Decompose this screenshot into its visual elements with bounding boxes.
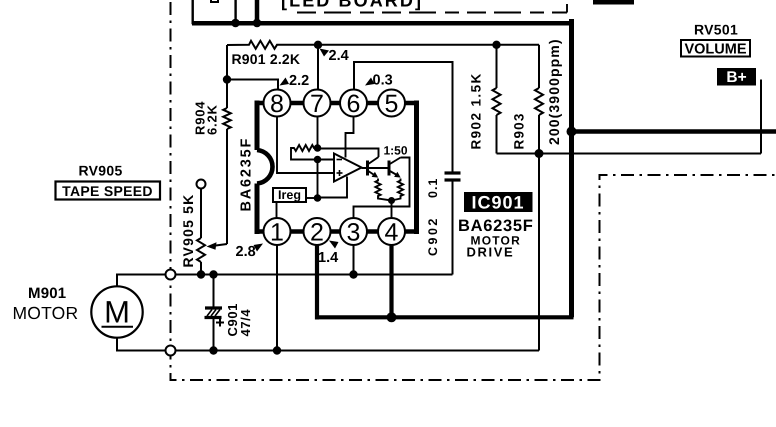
resistor R902 — [492, 41, 500, 154]
node dot C901 — [209, 270, 217, 278]
wiper arrow — [207, 242, 228, 250]
pin 5 — [378, 90, 405, 119]
svg-text:2: 2 — [310, 219, 324, 247]
svg-text:3: 3 — [347, 219, 361, 247]
capacitor C901 — [205, 275, 225, 351]
node dot — [253, 19, 262, 28]
svg-text:M901: M901 — [28, 285, 66, 302]
wire Q2 collector to pin3 — [354, 158, 410, 219]
svg-text:M: M — [104, 295, 130, 330]
emitter resistor Q1 — [375, 179, 391, 201]
svg-text:1.4: 1.4 — [318, 250, 338, 266]
emitter resistor Q2 — [392, 179, 404, 201]
svg-text:R903: R903 — [512, 112, 527, 149]
IC inner: pin8 to op-amp + — [277, 117, 334, 174]
pin 3 — [340, 218, 367, 247]
wire horizontal to resistors — [497, 153, 762, 155]
svg-text:2.4: 2.4 — [329, 48, 349, 64]
connector box top-left — [193, 0, 236, 23]
svg-text:7: 7 — [310, 90, 324, 118]
wire motor+ rail — [176, 274, 452, 276]
wire pin6 top — [354, 62, 453, 172]
transistor Q1 — [368, 157, 379, 178]
wire R904 to wiper — [226, 129, 228, 244]
node dot pin4 — [387, 312, 397, 322]
node dot pin3 — [349, 270, 357, 278]
node dot C901- — [209, 346, 217, 354]
node dot pin1 — [273, 346, 281, 354]
svg-text:IC901: IC901 — [471, 193, 524, 213]
terminal circle bottom — [166, 346, 176, 356]
wire motor bottom — [117, 338, 166, 351]
svg-text:R902 1.5K: R902 1.5K — [469, 72, 484, 149]
wire motor top — [117, 275, 166, 287]
terminal circle top — [166, 270, 176, 280]
thick wire right vertical — [569, 19, 574, 317]
svg-text:B+: B+ — [726, 69, 746, 86]
node dot — [231, 19, 240, 28]
wire to pin4 — [391, 201, 393, 219]
motor M901 — [91, 286, 142, 337]
svg-text:TAPE SPEED: TAPE SPEED — [62, 183, 153, 199]
wire pin3 — [353, 245, 355, 275]
svg-text:47/4: 47/4 — [238, 309, 253, 337]
wire pin4 thick — [389, 245, 393, 320]
capacitor C902 — [445, 173, 461, 275]
pin 4 — [378, 218, 405, 247]
svg-text:0.3: 0.3 — [373, 73, 393, 89]
black label remnant — [593, 0, 634, 5]
svg-text:5: 5 — [385, 90, 399, 118]
svg-text:BA6235F: BA6235F — [239, 137, 255, 212]
svg-text:1:50: 1:50 — [384, 144, 408, 158]
pin 6 — [340, 90, 367, 119]
node dot — [314, 144, 322, 152]
svg-text:6: 6 — [347, 90, 361, 118]
potentiometer RV905 — [197, 180, 206, 275]
wire pin7 — [317, 45, 319, 90]
svg-text:Ireg: Ireg — [278, 188, 301, 202]
svg-text:[LED BOARD]: [LED BOARD] — [281, 0, 423, 11]
svg-text:C902: C902 — [426, 216, 440, 256]
resistor R904 — [223, 108, 231, 129]
svg-text:6.2K: 6.2K — [205, 104, 220, 135]
wire collector net — [318, 149, 379, 158]
node dot 2.2 — [223, 75, 231, 83]
Ireg box — [273, 188, 318, 218]
voltage 2.2 — [280, 73, 310, 89]
wire B+ feed vertical — [760, 80, 762, 154]
wire pin2 thick — [315, 245, 319, 320]
wire pin1 — [276, 245, 278, 351]
voltage 2.8 — [236, 244, 264, 261]
wire to Ireg node — [317, 160, 319, 199]
svg-text:4: 4 — [385, 219, 399, 247]
pin 1 — [264, 218, 291, 247]
pin 7 — [304, 90, 331, 119]
pin 8 — [264, 90, 291, 119]
svg-text:0.1: 0.1 — [426, 178, 440, 198]
op-amp U — [334, 154, 362, 182]
thick wire bottom horizontal — [315, 315, 574, 319]
svg-text:2.2: 2.2 — [289, 73, 309, 89]
svg-text:MOTOR: MOTOR — [13, 303, 79, 323]
pin 2 — [304, 218, 331, 247]
node dot — [314, 194, 322, 202]
node dot — [388, 197, 395, 204]
wire motor- rail — [176, 350, 540, 352]
voltage 2.4 — [320, 48, 349, 64]
TAPE SPEED box — [56, 182, 161, 200]
node dot R903 — [535, 149, 544, 158]
svg-text:BA6235F: BA6235F — [458, 217, 534, 235]
node dot — [314, 156, 322, 164]
board boundary dash-dot — [171, 2, 776, 380]
node dot — [567, 127, 577, 137]
VOLUME box — [681, 40, 750, 58]
node dot pot — [197, 270, 205, 278]
internal resistor — [291, 145, 334, 160]
wire R904 branch — [226, 45, 228, 108]
svg-text:1: 1 — [270, 219, 284, 247]
IC inner: pin7 down — [317, 117, 319, 149]
voltage 1.4 — [318, 241, 339, 267]
dashed line LED board — [297, 4, 567, 13]
wire fb — [318, 177, 348, 198]
resistor R901 and 2.4 net wire — [227, 41, 539, 49]
svg-text:RV905: RV905 — [79, 163, 123, 179]
thick wire B+ horizontal — [572, 129, 776, 134]
thick bus wire top — [192, 21, 574, 26]
svg-text:RV501: RV501 — [694, 22, 738, 38]
svg-text:200(3900ppm): 200(3900ppm) — [546, 38, 562, 145]
label C901 47/4 — [225, 303, 253, 336]
thick stub up — [255, 0, 260, 23]
svg-text:DRIVE: DRIVE — [467, 245, 515, 260]
wire pin6 inner — [346, 117, 354, 158]
svg-text:8: 8 — [270, 90, 284, 118]
transistor Q2 — [389, 158, 401, 178]
svg-text:RV905 5K: RV905 5K — [180, 194, 196, 268]
IC901 label — [464, 192, 533, 213]
voltage 0.3 — [365, 73, 393, 89]
node dot 2.4 — [314, 41, 322, 49]
wire base line — [362, 167, 390, 169]
B+ label — [717, 68, 756, 86]
wire to pin8 — [227, 80, 278, 91]
svg-text:2.8: 2.8 — [236, 244, 256, 260]
svg-text:VOLUME: VOLUME — [684, 42, 746, 58]
svg-text:R901 2.2K: R901 2.2K — [232, 51, 301, 67]
IC901 package — [255, 101, 418, 235]
resistor R903 — [535, 45, 543, 351]
label R904 6.2K — [193, 101, 220, 135]
